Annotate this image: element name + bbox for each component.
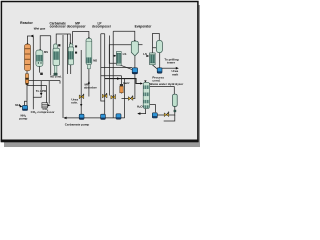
svg-text:pump: pump	[19, 117, 27, 121]
wire reactor bottom to NH3 pump	[26, 70, 28, 106]
hydrolyzer vessel	[173, 94, 178, 106]
CO2 compressor (striped box with discharge)	[42, 103, 48, 108]
wire vent vertical with orange heater	[101, 76, 122, 94]
wire desorber water outlet	[138, 108, 146, 113]
wire long vertical x124.6	[124, 79, 126, 118]
arrow MP absorber up	[88, 81, 90, 84]
reactor letdown (small orange vessel)	[25, 74, 29, 85]
wire LP overhead to evaporator separator	[104, 34, 106, 115]
svg-text:compressor: compressor	[37, 110, 55, 114]
wire MP decomposer overhead to LP decomposer	[73, 32, 89, 44]
svg-text:Evaporator: Evaporator	[135, 25, 153, 29]
svg-text:decomposer: decomposer	[67, 25, 87, 29]
wire evap pump discharge left header	[101, 67, 132, 69]
wire urea soln letdown line	[80, 50, 82, 115]
pump carbamate 1	[79, 114, 84, 119]
arrow process cond (points right)	[117, 77, 120, 80]
hydrolyzer bottom stem and fitting	[174, 106, 176, 112]
svg-text:condenser: condenser	[50, 25, 67, 29]
wire 1st separator cone to pump	[134, 56, 136, 68]
wire 2nd separator overhead	[153, 34, 160, 54]
valve wastewater	[164, 112, 169, 117]
V2 bottom line fitting	[40, 73, 43, 75]
wire wet gas long downcomer	[32, 36, 34, 109]
wire vertical x67.5	[67, 34, 69, 74]
pump carbamate 2	[101, 114, 106, 119]
arrow into desorber	[140, 82, 143, 84]
wire 1st evap pump down to valve row	[122, 74, 135, 99]
wire NH3 pump discharge	[25, 101, 28, 105]
svg-text:H2O: H2O	[137, 104, 143, 109]
svg-text:absorber: absorber	[84, 86, 98, 90]
1st evaporator heater	[117, 52, 122, 65]
wire long line left of carbamate condenser	[50, 36, 52, 75]
arrow compressor discharge	[48, 104, 51, 106]
wire LP decomposer bottom / MP absorber riser	[88, 69, 90, 97]
carbamate condenser column V3	[53, 44, 60, 76]
wire reactor top riser	[28, 36, 31, 45]
wire 2nd separator to product pump	[159, 53, 161, 68]
arrow wet gas (points left)	[30, 35, 34, 38]
2nd evaporator separator	[156, 40, 162, 52]
wire letdown header H2	[27, 84, 46, 86]
wire process condensate header	[105, 79, 142, 84]
arrow into MP decomposer top	[69, 43, 71, 45]
wire condenser V2 overhead	[40, 36, 51, 51]
svg-text:decomposer: decomposer	[92, 25, 112, 29]
wire V4 bottom stub	[70, 65, 72, 74]
wire V2 bottom stub	[38, 66, 40, 72]
wire 1st heater to evap pump diagonal	[120, 65, 133, 70]
orange vent heater	[120, 84, 123, 93]
arrow into condenser V2 top	[39, 49, 41, 51]
tiny mark right of V3 top	[58, 44, 60, 46]
svg-text:MS: MS	[93, 59, 97, 63]
arrow LS into 1st heater	[114, 55, 117, 57]
arrow into reactor top	[27, 43, 29, 45]
wire hydrolyzer drain loop	[164, 115, 175, 121]
page background	[0, 0, 200, 148]
arrow To LPD (points down)	[40, 93, 43, 96]
wire carbamate pump header	[64, 117, 125, 119]
desorber column (banded)	[143, 82, 149, 108]
card shadow	[4, 4, 200, 147]
arrow LS into 2nd heater	[147, 55, 150, 57]
svg-text:Vent: Vent	[123, 81, 130, 85]
svg-text:Waste water Hydrolyzer: Waste water Hydrolyzer	[150, 82, 185, 86]
svg-text:melt: melt	[172, 72, 178, 76]
svg-text:Reactor: Reactor	[20, 21, 33, 25]
arrow into LP decomposer top	[88, 37, 90, 39]
pump NH3	[22, 105, 27, 110]
svg-text:LS: LS	[143, 52, 147, 56]
pump carbamate 3	[116, 114, 121, 119]
arrow treated water (points left)	[137, 112, 140, 115]
pump 2nd evap	[157, 68, 162, 73]
wire vacuum line to 1st separator	[113, 31, 135, 41]
wire 2nd heater to evap pump diagonal	[152, 65, 157, 69]
wire V3 neck	[55, 70, 57, 73]
arrow urea soln down	[80, 104, 82, 107]
pump wastewater	[152, 113, 157, 118]
wire 1st separator recirculation	[109, 45, 131, 64]
svg-text:LS: LS	[123, 52, 127, 56]
arrow NH3 feed	[19, 104, 22, 107]
svg-text:Wet gas: Wet gas	[34, 27, 46, 31]
diagram card frame	[1, 2, 198, 141]
MP decomposer column V4	[68, 44, 74, 65]
valve urea soln letdown	[79, 94, 84, 99]
arrow into 1st separator top	[134, 40, 136, 42]
pump 1st evap	[132, 68, 137, 74]
wire x112 down to pump line	[112, 31, 114, 118]
valve d	[128, 96, 133, 101]
svg-text:tower: tower	[167, 61, 176, 65]
arrow tick desorber top	[144, 80, 146, 82]
1st evaporator separator (capsule with cone)	[131, 41, 138, 55]
svg-text:MS cond.: MS cond.	[50, 75, 62, 79]
wire compressor suction vertical b	[48, 81, 50, 104]
wire compressor suction vertical a	[45, 85, 47, 103]
wire to LPD branch	[34, 81, 42, 98]
wire letdown header H1	[28, 81, 60, 84]
wire 1st separator right stub	[138, 44, 142, 46]
wire vertical x109.5	[109, 36, 111, 96]
condenser V2 (small green vessel with tube section)	[36, 50, 43, 66]
wire carbamate condenser overhead	[56, 34, 70, 44]
svg-text:MS: MS	[44, 50, 48, 54]
wire LS feed arrow 1st heater	[114, 55, 116, 57]
arrow carbamate header (points left)	[63, 117, 66, 120]
valve b	[102, 93, 107, 98]
wire urea melt line	[162, 67, 177, 69]
arrow into 2nd heater top	[152, 53, 154, 55]
svg-text:Carbamate pump: Carbamate pump	[65, 123, 90, 127]
wire vertical x100.8	[101, 34, 105, 101]
wire LS feed arrow 2nd heater	[146, 55, 148, 57]
wire hydrolyzer return to desorber	[150, 87, 175, 95]
LP decomposer column V5	[86, 38, 92, 68]
wire wastewater pump to hydrolyzer	[157, 112, 174, 115]
svg-text:soln.: soln.	[71, 101, 78, 105]
reactor R (orange striped column)	[25, 44, 31, 71]
tiny marks right of V4	[75, 45, 77, 47]
valve c	[111, 94, 116, 99]
arrow urea melt (points right)	[176, 67, 179, 70]
wire long vertical x63 to pump line	[62, 35, 64, 118]
svg-text:To LPD: To LPD	[36, 89, 47, 93]
wire desorber side outlet to wastewater pump	[150, 105, 156, 113]
2nd evaporator heater	[150, 53, 156, 65]
